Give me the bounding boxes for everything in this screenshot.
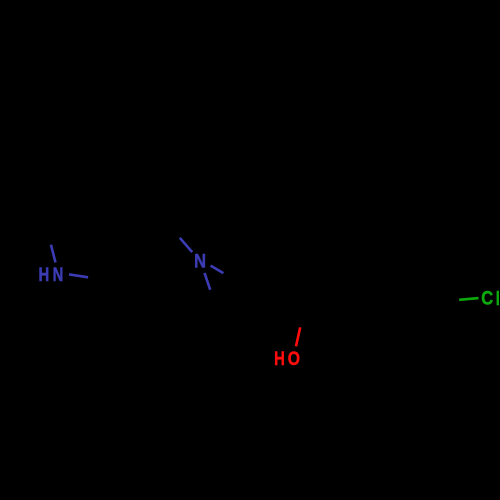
svg-text:O: O bbox=[288, 347, 300, 369]
svg-text:N: N bbox=[53, 264, 64, 285]
svg-text:H: H bbox=[39, 264, 50, 285]
wire bond N2-C8 (right from N) bbox=[211, 266, 224, 274]
wire bond N2-C7 (up-left from N) bbox=[180, 238, 192, 252]
wire bond Cl-C15 (left from Cl) bbox=[459, 298, 478, 300]
wire bond N1-C2 (up from HN) bbox=[51, 245, 56, 263]
svg-text:H: H bbox=[274, 348, 285, 369]
svg-text:C: C bbox=[481, 288, 493, 309]
wire bond O-C11 (up from HO) bbox=[296, 327, 300, 346]
wire bond N2-C9 (down from N) bbox=[205, 273, 211, 290]
svg-text:l: l bbox=[496, 288, 500, 309]
svg-text:N: N bbox=[194, 251, 206, 272]
wire bond N1-C5 (right from HN) bbox=[69, 274, 88, 277]
